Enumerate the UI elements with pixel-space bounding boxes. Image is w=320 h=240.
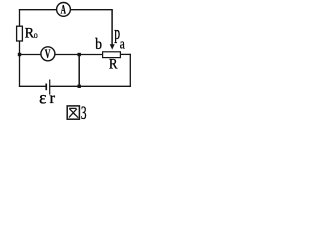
node junction left <box>18 53 21 56</box>
svg-text:R: R <box>109 57 118 73</box>
svg-text:V: V <box>45 49 51 62</box>
rheostat R body <box>103 52 121 58</box>
wire bottom left segment <box>19 85 46 87</box>
svg-text:b: b <box>95 36 102 53</box>
wire voltmeter branch <box>20 54 104 56</box>
wire branch down <box>78 55 80 87</box>
wire rheostat right lead <box>120 53 130 55</box>
wire bottom right segment <box>50 85 131 87</box>
ammeter A <box>57 2 71 16</box>
wire left <box>19 9 21 87</box>
wire right vertical <box>129 54 131 87</box>
voltmeter V <box>41 47 55 61</box>
caption character tu (figure) drawn as strokes <box>67 106 79 119</box>
battery cell negative plate <box>45 84 47 91</box>
svg-text:r: r <box>50 88 56 107</box>
resistor R0 body <box>17 26 23 41</box>
wire top <box>19 9 113 11</box>
svg-text:3: 3 <box>81 103 87 123</box>
svg-text:p: p <box>114 23 120 43</box>
node junction bottom <box>78 85 81 88</box>
svg-text:a: a <box>120 35 125 52</box>
wire slider vertical <box>111 10 113 46</box>
svg-text:o: o <box>34 29 39 40</box>
slider arrowhead p <box>110 44 115 49</box>
svg-text:A: A <box>61 4 67 17</box>
battery cell positive plate <box>49 80 50 95</box>
node junction middle <box>78 53 81 56</box>
svg-text:ε: ε <box>39 87 46 107</box>
